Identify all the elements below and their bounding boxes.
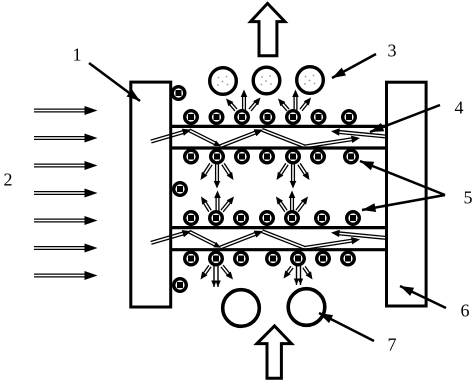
photocatalyst particle row2 #1 [185,150,198,163]
emission arrow up-right from row1 particle 3 [251,103,258,111]
emission arrow down-left from row4 particle 2 [203,265,209,274]
left transparent wall (part 1) [131,82,171,307]
incident light arrow 4 [34,193,87,195]
incident light arrow 6 [34,248,87,250]
incident light arrow 2 [34,138,87,140]
photocatalyst particle row4 #3 [235,252,248,265]
photocatalyst particle row4 #6 [317,252,330,265]
emission arrow down from row2 particle 5 [291,163,293,183]
upper plate bottom line [171,146,386,149]
gas inlet hollow arrow (bottom) [257,326,292,378]
photocatalyst particle row3 #3 [235,212,248,225]
photocatalyst particle row2 #4 [261,150,274,163]
light ray reflected off right wall in lower plate [338,232,387,237]
reactant bubble right (part 7) [288,289,325,326]
photocatalyst particle row3 #5 [286,212,299,225]
svg-text:7: 7 [388,334,397,354]
light ray entering upper plate through left wall [151,133,185,143]
emission arrow down-right from row2 particle 5 [298,165,305,176]
emission arrow up from row3 particle 5 [292,196,294,213]
photocatalyst particle row3 #7 [347,212,360,225]
light ray rising to right in upper plate [304,140,354,148]
emission arrow up-right from row3 particle 5 [298,202,306,212]
emission arrow up-left from row3 particle 5 [280,200,287,210]
light ray down-right in lower plate [261,233,304,250]
emission arrow up-left from row3 particle 2 [205,200,211,210]
emission arrow down-left from row2 particle 5 [278,163,285,174]
svg-text:1: 1 [73,44,82,64]
light ray rising to right in lower plate [304,242,354,250]
right transparent wall (part 6) [387,82,427,306]
emission arrow down-right from row2 particle 2 [222,165,229,176]
light ray down-right in upper plate [261,131,304,148]
photocatalyst particle row1 #5 [287,111,300,124]
photocatalyst particle row1 #2 [210,111,223,124]
photocatalyst particle row1 #6 [312,111,325,124]
photocatalyst particle row2 #5 [287,150,300,163]
photocatalyst particle row4 #2 [210,252,223,265]
light ray reflected off right wall in upper plate [338,130,387,135]
emission arrow up from row3 particle 2 [218,196,220,213]
emission arrow up from row1 particle 5 [296,95,298,112]
photocatalyst particle row2 #2 [211,150,224,163]
incident light arrow 1 [34,111,87,113]
upper plate top line (part 4) [171,125,386,128]
product bubble left (part 3) [210,68,237,95]
reactant bubble left (part 7) [223,290,260,327]
photocatalyst particle on left wall lower [174,279,187,292]
photocatalyst particle row3 #4 [261,212,274,225]
emission arrow down-right from row4 particle 2 [221,267,229,276]
photocatalyst particle row2 #6 [312,150,325,163]
incident light arrow 7 [34,276,87,278]
lower plate bottom line [171,248,386,251]
leader arrow b for label 5 [362,195,445,210]
svg-text:2: 2 [4,169,13,189]
leader arrow for label 4 [370,105,440,132]
lower plate top line [171,226,386,229]
photocatalyst particle on left wall upper [172,87,185,100]
emission arrow down from row2 particle 2 [215,163,217,183]
photocatalyst particle row4 #7 [342,252,355,265]
incident light arrow 3 [34,166,87,168]
light ray bounce up in lower plate [221,235,258,249]
svg-text:4: 4 [455,97,464,117]
product bubble middle (part 3) [253,67,280,94]
emission arrow up-left from row1 particle 5 [283,102,289,109]
photocatalyst particle on left wall middle [174,183,187,196]
photocatalyst particle row3 #6 [316,212,329,225]
emission arrow down-left from row2 particle 2 [202,163,209,174]
light ray bounce up in upper plate [221,133,258,147]
photocatalyst particle row4 #1 [185,252,198,265]
light ray bounce down in lower plate [188,233,216,247]
leader arrow for label 3 [332,54,376,78]
leader arrow for label 7 [319,313,374,341]
photocatalyst particle row4 #5 [292,252,305,265]
incident light arrow 5 [34,221,87,223]
emission arrow up-left from row1 particle 3 [231,102,237,109]
photocatalyst particle row4 #4 [267,252,280,265]
photocatalyst particle row1 #1 [185,111,198,124]
photocatalyst particle row2 #3 [236,150,249,163]
photocatalyst particle row1 #4 [261,111,274,124]
photocatalyst particle row3 #1 [185,212,198,225]
emission arrow down a from row4 particle 2 [213,265,215,287]
svg-text:5: 5 [464,187,473,207]
light ray entering lower plate through left wall [151,234,185,244]
emission arrow up-right from row3 particle 2 [223,202,231,212]
photocatalyst particle row1 #7 [343,111,356,124]
photocatalyst particle row3 #2 [210,212,223,225]
leader arrow for label 1 [89,63,140,101]
emission arrow up-right from row1 particle 5 [302,103,309,111]
gas outlet hollow arrow (top) [251,3,285,55]
emission arrow down a from row4 particle 5 [296,266,298,285]
emission arrow down b from row4 particle 2 [217,265,219,287]
photocatalyst particle row2 #7 [345,150,358,163]
product bubble right (part 3) [297,67,324,94]
emission arrow down b from row4 particle 5 [300,266,302,285]
emission arrow down-right from row4 particle 5 [303,268,308,276]
leader arrow a for label 5 [360,161,445,195]
svg-text:3: 3 [388,40,397,60]
emission arrow up from row1 particle 3 [244,95,246,112]
svg-text:6: 6 [461,300,470,320]
emission arrow down-left from row4 particle 5 [286,266,291,273]
photocatalyst particle row1 #3 [236,111,249,124]
leader arrow for label 6 [400,286,446,308]
light ray bounce down in upper plate [188,131,216,145]
